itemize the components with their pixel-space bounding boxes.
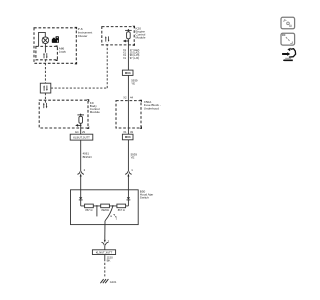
svg-text:Underhood: Underhood: [144, 106, 159, 110]
dashed ground wire: [104, 259, 106, 278]
wire lamp to logic: [44, 44, 46, 53]
MU3 label box upper: [122, 70, 133, 75]
wire to right connector: [127, 140, 129, 171]
svg-text:97 (LJF): 97 (LJF): [130, 57, 139, 60]
svg-text:44: 44: [130, 95, 133, 99]
ground G101 symbol: [100, 279, 108, 283]
BCM signal arrow: [78, 124, 81, 126]
right diode: [127, 190, 129, 198]
ECM serial arrows: [105, 36, 109, 42]
node dot left: [96, 205, 98, 207]
K20 corner flag top: [132, 26, 135, 29]
svg-text:E4: E4: [75, 130, 79, 134]
MU3 label box lower: [122, 134, 133, 140]
left splice label box: [70, 134, 93, 140]
ECM pin rows: [123, 49, 140, 60]
svg-text:867 Ω: 867 Ω: [118, 208, 125, 212]
svg-text:Module: Module: [90, 110, 100, 114]
wire below splice: [104, 255, 106, 260]
lamp loop wire: [39, 32, 46, 46]
left diode: [80, 190, 82, 198]
K9 corner flag top: [87, 99, 90, 102]
K9 corner flag: [87, 126, 90, 129]
resistor 867 ohm left: [85, 204, 94, 208]
dashed comm wire gateway to BCM: [44, 93, 46, 103]
wire label 5939 YE lower: [83, 152, 138, 160]
svg-text:Module: Module: [136, 36, 146, 40]
BCM resistor: [80, 115, 82, 116]
svg-text:Switch: Switch: [140, 196, 149, 200]
wire MU3 to fuse block: [127, 75, 129, 134]
svg-text:KL9/UT.J/UTT: KL9/UT.J/UTT: [73, 135, 90, 139]
svg-text:X2: X2: [123, 95, 127, 99]
svg-text:Logic: Logic: [59, 50, 67, 54]
svg-text:3920Ω: 3920Ω: [101, 208, 109, 212]
BCM internal supply T-bar: [77, 114, 84, 116]
A86 corner flag: [55, 58, 58, 61]
svg-text:G101: G101: [110, 280, 117, 284]
UI button 2: [281, 33, 295, 45]
svg-text:49: 49: [130, 130, 133, 134]
wire label 1150 BK: [107, 256, 114, 263]
security indicator icon: [52, 36, 59, 43]
P-6 corner flag top: [74, 27, 77, 30]
fixed contact stub: [96, 206, 98, 217]
BCM serial arrows: [43, 103, 47, 109]
X50A corner flag top: [139, 100, 142, 103]
dashed comm wire cluster to gateway: [44, 59, 46, 83]
svg-text:KL9/UT.J/UTT: KL9/UT.J/UTT: [96, 250, 113, 254]
node dot right: [112, 205, 114, 207]
svg-text:MU3: MU3: [125, 71, 131, 75]
svg-text:Cluster: Cluster: [78, 34, 88, 38]
svg-text:29: 29: [82, 130, 85, 134]
serial arrows A86: [43, 53, 47, 59]
X50A fuse block box: [116, 101, 141, 128]
resistor 3920 ohm: [101, 204, 110, 208]
instrument cluster P-6 box: [34, 28, 76, 64]
resistor 867 ohm right: [117, 204, 126, 208]
gateway serial arrows: [43, 85, 47, 91]
indicator lamp: [42, 37, 49, 44]
P-6 corner flag bottom: [74, 62, 77, 65]
gateway box: [40, 83, 51, 93]
ECM internal supply T-bar: [125, 29, 132, 31]
svg-text:X1: X1: [123, 130, 127, 134]
svg-text:BN/GN: BN/GN: [83, 155, 92, 159]
wire to left connector: [80, 140, 82, 171]
pin X2 44: [75, 95, 133, 134]
dashed comm wire gateway to ECM horizontal: [51, 87, 107, 89]
left inline connector: [77, 171, 84, 174]
svg-text:YE: YE: [131, 81, 135, 85]
wire label 5939 YE upper: [131, 78, 138, 85]
BCM K9 box: [39, 100, 88, 128]
ECM K20 box: [102, 27, 134, 45]
ECM signal arrow: [125, 40, 128, 42]
K20 corner flag: [132, 43, 135, 46]
dashed comm wire to ECM vertical: [106, 42, 108, 88]
bottom splice label box: [92, 250, 115, 255]
wire BCM to splice label: [80, 123, 82, 134]
A86 logic box: [36, 46, 58, 59]
svg-text:YE: YE: [131, 155, 135, 159]
UI button 1: [281, 17, 295, 29]
connector pin numbers: [84, 168, 134, 243]
A86 corner flag top: [55, 46, 58, 49]
lever travel arc: [110, 214, 116, 219]
svg-text:BK: BK: [107, 259, 111, 263]
svg-text:MU3: MU3: [125, 135, 131, 139]
right inline connector: [125, 171, 132, 174]
svg-text:867 Ω: 867 Ω: [85, 208, 92, 212]
boxed connector texts: [125, 71, 131, 139]
resistor bus wire: [81, 205, 129, 207]
ECM resistor: [127, 30, 129, 31]
UI scribble arrow icon: [282, 48, 296, 61]
X50A corner flag: [139, 126, 142, 129]
hood ajar switch B50 box: [71, 190, 139, 225]
switch output wire: [104, 221, 106, 240]
wire ECM to MU3: [127, 39, 129, 70]
resistor values: [85, 208, 124, 212]
switch lever: [105, 206, 113, 221]
bottom inline connector: [104, 238, 106, 240]
